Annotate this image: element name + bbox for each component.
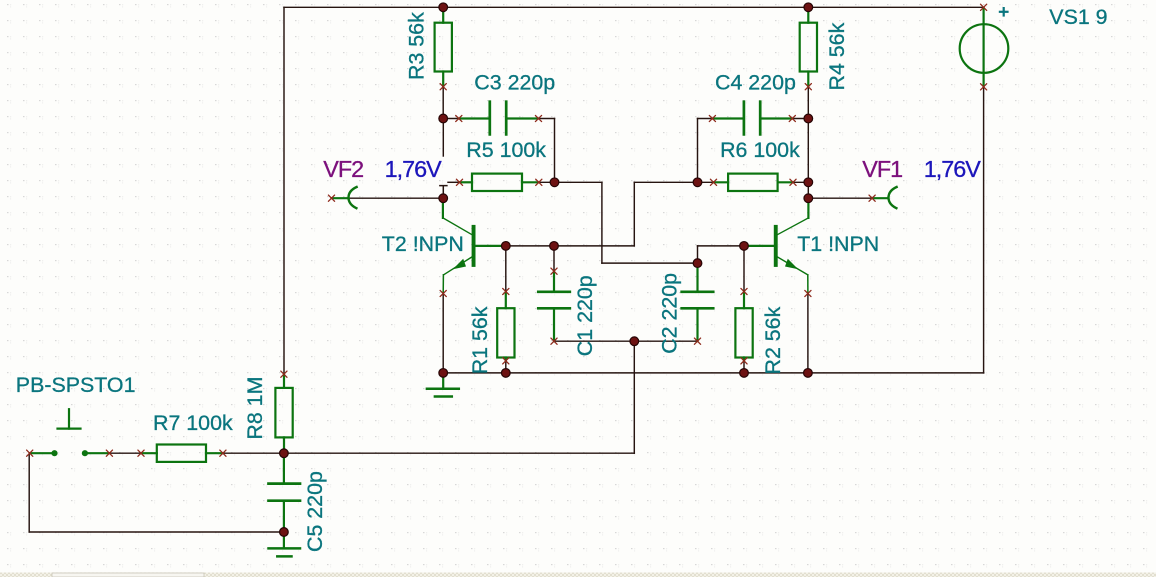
voltage probe VF1 xyxy=(872,187,897,208)
junction node C4 right xyxy=(804,114,813,123)
pushbutton PB-SPSTO1 xyxy=(30,409,110,456)
resistor R7 100k xyxy=(141,445,223,462)
wire PB to R7 xyxy=(109,452,141,454)
wire R2 bottom to ground rail xyxy=(743,361,745,373)
wire R6 right node down to T1 collector node xyxy=(807,182,809,198)
svg-text:C3 220p: C3 220p xyxy=(474,71,555,95)
pin marker R1 top xyxy=(503,288,509,294)
wire middle vertical down xyxy=(633,341,635,453)
wire T2 base row xyxy=(506,245,635,247)
pin marker VF1 xyxy=(869,195,875,201)
pin marker R3 bottom xyxy=(440,84,446,90)
wire C1 top from base row xyxy=(553,246,555,271)
pin marker R4 bottom xyxy=(805,84,811,90)
pin marker C4 right xyxy=(789,115,795,121)
wire C3 right pin to corner xyxy=(539,118,555,120)
svg-text:R3 56k: R3 56k xyxy=(405,12,429,80)
wire R6 left node to R6 left pin xyxy=(698,181,714,183)
junction node R6 left xyxy=(693,178,702,187)
pin marker VS1 top xyxy=(981,4,987,10)
junction node ground rail R2 xyxy=(740,369,749,378)
junction node R6 right xyxy=(804,178,813,187)
junction node R4 top xyxy=(804,3,813,12)
junction node R2 top base row xyxy=(740,242,749,251)
wire cross-coupling B horizontal to R6 left node xyxy=(634,181,697,183)
wire R3 bottom to C3 node xyxy=(442,87,444,119)
svg-text:VF1: VF1 xyxy=(862,156,902,182)
wire VS1 return vertical xyxy=(983,87,985,373)
wire T1 emitter down to ground rail xyxy=(807,294,809,373)
wire cross-coupling B vertical xyxy=(633,182,635,246)
junction node ground rail T2 xyxy=(439,369,448,378)
resistor R4 56k xyxy=(800,8,817,87)
wire R5 right pin to node xyxy=(539,181,555,183)
junction node C5 ground xyxy=(280,528,289,537)
pin marker C1 top xyxy=(551,268,557,274)
pin marker R2 top xyxy=(741,288,747,294)
svg-text:R4 56k: R4 56k xyxy=(825,22,849,90)
pin marker C1 bottom xyxy=(551,338,557,344)
capacitor C1 220p xyxy=(538,271,570,341)
voltage source VS1 xyxy=(960,8,1009,87)
plus polarity mark of VS1 xyxy=(999,7,1009,17)
transistor T1 !NPN xyxy=(744,198,808,293)
ground at T2 emitter xyxy=(427,373,459,397)
pin marker R1 bottom xyxy=(503,358,509,364)
svg-text:PB-SPSTO1: PB-SPSTO1 xyxy=(16,373,136,397)
junction node R5 right xyxy=(550,178,559,187)
pin marker VS1 bottom xyxy=(981,84,987,90)
pin marker R8 top xyxy=(281,371,287,377)
resistor R1 56k xyxy=(497,292,514,361)
pin marker T1 emitter xyxy=(805,290,811,296)
junction node C2 top xyxy=(693,259,702,268)
wire cross-coupling A horizontal upper xyxy=(555,181,602,183)
wire R6 right pin to node xyxy=(793,181,808,183)
svg-text:C2 220p: C2 220p xyxy=(658,273,682,354)
svg-text:C4 220p: C4 220p xyxy=(715,71,796,95)
pin marker T2 emitter xyxy=(440,290,446,296)
junction node C1 top base row xyxy=(550,242,559,251)
wire T-capped stub above VF2 node xyxy=(440,186,447,199)
junction node ground rail T1 emitter xyxy=(804,369,813,378)
wire R1 top from base row xyxy=(505,246,507,292)
wire left vertical from rail to R8 xyxy=(283,7,285,374)
wire C3 node to C3 left pin xyxy=(443,118,459,120)
voltage probe VF2 xyxy=(332,187,357,208)
junction node C1 C2 bottom row xyxy=(630,337,639,346)
resistor R6 100k xyxy=(714,174,794,191)
pin marker R6 right xyxy=(790,179,796,185)
svg-text:R5 100k: R5 100k xyxy=(466,138,546,162)
capacitor C2 220p xyxy=(682,263,714,341)
pin marker R7 right xyxy=(220,450,226,456)
junction node C3 left xyxy=(439,114,448,123)
wire T1 base row xyxy=(698,245,745,247)
svg-text:R1 56k: R1 56k xyxy=(468,306,492,374)
capacitor C4 220p xyxy=(712,102,792,135)
junction node ground rail R1 xyxy=(501,369,510,378)
transistor T2 !NPN xyxy=(443,198,506,293)
junction node T2 collector xyxy=(439,194,448,203)
pin marker C4 left xyxy=(709,115,715,121)
pin marker PB right xyxy=(106,450,112,456)
resistor R5 100k xyxy=(460,174,539,191)
pin marker R7 left xyxy=(138,450,144,456)
capacitor C3 220p xyxy=(459,102,539,135)
pin marker PB left xyxy=(27,450,33,456)
svg-text:VF2: VF2 xyxy=(323,156,363,182)
ground below C5 xyxy=(269,532,301,556)
wire top supply rail xyxy=(284,6,984,8)
svg-text:R8 1M: R8 1M xyxy=(243,377,267,440)
pin marker R5 left xyxy=(456,179,462,185)
wire R1 bottom to ground rail xyxy=(505,361,507,373)
pin marker R2 bottom xyxy=(741,358,747,364)
scrollbar strip at window bottom xyxy=(0,573,1156,577)
pin marker R6 left xyxy=(710,179,716,185)
wire T1 collector node to VF1 probe xyxy=(808,197,872,199)
svg-text:1,76V: 1,76V xyxy=(385,156,443,182)
wire bottom left row to C5 ground node xyxy=(29,531,284,533)
wire R4 bottom to C4 node xyxy=(807,87,809,119)
wire cross-coupling A vertical xyxy=(601,182,603,263)
svg-text:C5 220p: C5 220p xyxy=(303,471,327,552)
svg-text:T1 !NPN: T1 !NPN xyxy=(797,232,879,256)
pin marker C3 right xyxy=(535,115,541,121)
svg-text:1,76V: 1,76V xyxy=(924,156,982,182)
wire C4 right pin to R4 node xyxy=(792,118,808,120)
wire C4 node vertical to R6 left node xyxy=(697,119,699,183)
svg-text:R2 56k: R2 56k xyxy=(761,306,785,374)
wire R2 top from base row xyxy=(743,246,745,292)
junction node R7 R8 C5 xyxy=(280,449,289,458)
wire C3 corner down to R5 right node xyxy=(554,119,556,183)
wire stub below C3 node (cut by value label) xyxy=(442,119,444,157)
resistor R3 56k xyxy=(435,8,452,87)
wire ground rail xyxy=(443,372,983,374)
resistor R2 56k xyxy=(735,292,752,361)
wire cross-coupling A horizontal lower to C2 node xyxy=(602,262,698,264)
wire VF2 probe to T2 collector node xyxy=(332,197,444,199)
wire stub to R5 left pin xyxy=(448,181,460,183)
junction node T1 collector xyxy=(804,194,813,203)
wire bottom row to R8 node xyxy=(284,452,634,454)
wire C1 bottom to C2 bottom row xyxy=(554,340,698,342)
resistor R8 1M xyxy=(275,374,292,453)
svg-text:T2 !NPN: T2 !NPN xyxy=(382,232,464,256)
svg-text:R7 100k: R7 100k xyxy=(153,411,233,435)
junction node R3 top xyxy=(439,3,448,12)
pin marker VF2 xyxy=(328,195,334,201)
svg-text:R6 100k: R6 100k xyxy=(720,138,800,162)
wire T1 base corner down to C2 node xyxy=(697,246,699,263)
capacitor C5 220p xyxy=(269,453,301,532)
svg-text:C1 220p: C1 220p xyxy=(573,275,597,356)
pin marker R5 right xyxy=(536,179,542,185)
svg-text:VS1 9: VS1 9 xyxy=(1049,5,1107,29)
wire T2 emitter down to ground rail xyxy=(442,294,444,373)
wire C4 node to C4 left pin xyxy=(698,118,713,120)
wire C4 node down to R6 right node xyxy=(807,119,809,183)
pin marker C2 bottom xyxy=(694,338,700,344)
junction node R1 top base row xyxy=(501,242,510,251)
wire R7 to R8 node xyxy=(223,452,284,454)
wire PB left down xyxy=(28,453,30,532)
pin marker C3 left xyxy=(456,115,462,121)
